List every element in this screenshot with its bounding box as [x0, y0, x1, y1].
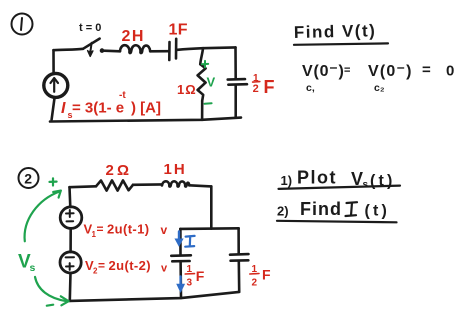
svg-text:I: I: [61, 100, 66, 117]
svg-text:1H: 1H: [164, 161, 187, 178]
svg-text:2: 2: [253, 83, 259, 95]
svg-text:1Ω: 1Ω: [177, 82, 197, 97]
svg-text:2): 2): [277, 204, 289, 219]
svg-text:F: F: [262, 267, 271, 283]
svg-text:-t: -t: [119, 90, 126, 101]
svg-text:V(0⁻): V(0⁻): [302, 63, 345, 80]
svg-text:V: V: [207, 75, 216, 90]
svg-text:c,: c,: [306, 82, 315, 94]
svg-text:s: s: [363, 180, 369, 191]
svg-text:=: =: [344, 65, 350, 77]
svg-text:1F: 1F: [169, 22, 188, 39]
svg-text:Find: Find: [300, 199, 342, 219]
svg-text:c₂: c₂: [374, 82, 385, 94]
svg-text:0: 0: [446, 63, 454, 80]
svg-text:v: v: [161, 223, 168, 237]
svg-text:3: 3: [187, 278, 193, 289]
svg-text:F: F: [196, 268, 205, 284]
svg-text:2u(t-2): 2u(t-2): [109, 258, 152, 273]
svg-text:Plot: Plot: [297, 168, 337, 188]
svg-text:F: F: [264, 77, 275, 97]
svg-text:2H: 2H: [122, 28, 145, 45]
svg-text:1): 1): [281, 173, 293, 188]
svg-text:= 3(1- e: = 3(1- e: [72, 100, 124, 117]
svg-text:) [A]: ) [A]: [131, 100, 161, 117]
svg-text:=: =: [98, 259, 105, 273]
svg-text:2: 2: [24, 170, 32, 186]
svg-text:2u(t-1): 2u(t-1): [107, 222, 150, 237]
svg-text:t = 0: t = 0: [79, 22, 101, 34]
svg-text:=: =: [422, 62, 431, 79]
svg-text:=: =: [97, 222, 104, 236]
svg-text:(t): (t): [365, 203, 391, 220]
svg-text:Find V(t): Find V(t): [294, 21, 377, 42]
svg-text:V(0⁻): V(0⁻): [368, 63, 413, 80]
svg-text:s: s: [30, 262, 36, 274]
svg-text:2Ω: 2Ω: [106, 162, 133, 179]
svg-text:2: 2: [252, 278, 258, 289]
svg-text:v: v: [161, 263, 168, 275]
